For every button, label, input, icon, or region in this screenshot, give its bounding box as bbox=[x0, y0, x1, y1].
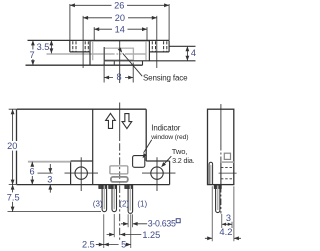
svg-text:8: 8 bbox=[116, 72, 121, 82]
3.2 dia leader bbox=[163, 156, 172, 165]
hidden hole lines bbox=[221, 168, 234, 179]
left clamp dashed slots bbox=[73, 41, 89, 52]
gray housing outer rect sides bbox=[93, 41, 146, 60]
gray housing top line bbox=[91, 40, 149, 42]
dimension 3.5 bbox=[50, 40, 52, 53]
center line solid entry bbox=[119, 103, 121, 142]
indicator window square bbox=[133, 156, 145, 168]
rear edge of body bbox=[104, 60, 195, 62]
mounting hole 2 bbox=[151, 167, 163, 179]
middle section black edges bbox=[90, 40, 149, 65]
svg-text:5: 5 bbox=[121, 240, 126, 250]
svg-text:4: 4 bbox=[191, 48, 196, 58]
center line dash-dot bbox=[119, 143, 121, 240]
svg-text:Sensing face: Sensing face bbox=[143, 74, 188, 83]
top edge of plate bbox=[28, 39, 170, 41]
svg-text:7.5: 7.5 bbox=[7, 192, 20, 202]
gray terminal block upper rect bbox=[110, 166, 128, 174]
gray optical axis line bbox=[47, 53, 147, 55]
gray sensing face inner rect bbox=[104, 48, 133, 60]
right clamp block bbox=[149, 40, 169, 52]
svg-text:3: 3 bbox=[226, 213, 231, 223]
svg-text:4.2: 4.2 bbox=[219, 226, 232, 237]
down arrow (light path) bbox=[122, 114, 132, 129]
gray window line bbox=[28, 161, 71, 163]
svg-text:Two,: Two, bbox=[172, 147, 187, 156]
svg-text:26: 26 bbox=[114, 0, 124, 10]
svg-text:14: 14 bbox=[115, 24, 125, 34]
dimension 2.5 and 5 bbox=[104, 214, 131, 248]
step vertical at right end of front part bbox=[142, 61, 144, 65]
dimension 1.25 bbox=[113, 214, 115, 237]
svg-text:window (red): window (red) bbox=[150, 134, 188, 141]
svg-text:(1): (1) bbox=[137, 200, 147, 209]
svg-text:3-0.635: 3-0.635 bbox=[148, 218, 176, 228]
center line of sensing face bbox=[119, 40, 121, 83]
right tab top edge bbox=[169, 45, 195, 47]
dimension 14 bbox=[94, 27, 147, 40]
svg-text:(2): (2) bbox=[119, 200, 129, 209]
dimension 7.5 bbox=[8, 211, 102, 213]
dimension 4 (tab) bbox=[186, 46, 188, 61]
svg-text:6: 6 bbox=[29, 167, 34, 177]
side pin bbox=[214, 185, 221, 213]
terminal notch verticals in top view bbox=[104, 47, 114, 65]
up arrow (light path) bbox=[106, 113, 116, 128]
dimension 8 bbox=[104, 63, 133, 83]
dimension 20 (front) bbox=[9, 109, 16, 184]
svg-text:7: 7 bbox=[29, 50, 34, 60]
middle divider bbox=[92, 109, 94, 184]
dimension 20 (top) bbox=[83, 16, 157, 68]
dimension 3 (side) bbox=[222, 214, 232, 228]
svg-text:1.25: 1.25 bbox=[142, 230, 160, 240]
hole1 boss bbox=[71, 161, 93, 185]
sensing face leader bbox=[123, 53, 143, 76]
dimension 4.2 bbox=[212, 186, 234, 241]
svg-text:Indicator: Indicator bbox=[151, 123, 180, 132]
side center line solid part bbox=[220, 104, 222, 144]
side slot bbox=[209, 162, 213, 184]
left clamp block bbox=[70, 40, 90, 52]
gray window line (side) bbox=[221, 161, 234, 163]
front outline bbox=[17, 109, 170, 184]
right clamp dashed slots bbox=[152, 41, 167, 52]
bottom edge of plate bbox=[26, 64, 143, 66]
side step edge bbox=[220, 163, 222, 185]
svg-text:3.5: 3.5 bbox=[37, 42, 50, 52]
dimension 6 bbox=[31, 162, 33, 185]
mounting hole 1 bbox=[75, 167, 87, 179]
svg-text:2.5: 2.5 bbox=[82, 240, 95, 250]
svg-text:(3): (3) bbox=[93, 200, 103, 209]
gray terminal block lower bar bbox=[111, 177, 128, 182]
indicator leader bbox=[144, 140, 152, 153]
terminal pin 1 bbox=[125, 185, 133, 214]
side outline bbox=[208, 109, 234, 184]
svg-text:20: 20 bbox=[7, 141, 17, 151]
hole2 boss bbox=[146, 161, 169, 185]
svg-text:3.2 dia.: 3.2 dia. bbox=[172, 156, 195, 165]
dimension 3-0.635 bbox=[128, 214, 133, 227]
terminal pin 3 bbox=[99, 185, 107, 212]
dimension 7 bbox=[32, 40, 34, 65]
svg-text:3: 3 bbox=[47, 175, 52, 185]
svg-text:20: 20 bbox=[115, 13, 125, 23]
side indicator square bbox=[224, 153, 230, 159]
terminal pin 2 bbox=[109, 185, 117, 212]
hole center line bbox=[219, 172, 237, 174]
dimension 26 bbox=[70, 4, 169, 40]
side center line dash-dot bbox=[220, 144, 222, 163]
dimension 3 (front) bbox=[38, 172, 53, 174]
